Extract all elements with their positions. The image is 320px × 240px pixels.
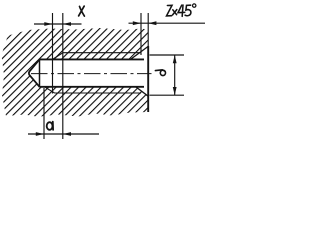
axis (center line) <box>31 73 152 75</box>
dimension a: extension line left <box>43 88 45 139</box>
dimension x: extension line left <box>52 13 54 94</box>
sectioned part (hatched material) with blind threaded hole <box>2 28 149 117</box>
dimension z: dimension line, outside arrows <box>129 22 206 24</box>
4 <box>178 5 185 13</box>
dimension x/a: shared extension line right <box>62 13 64 139</box>
thread runout slant top <box>53 53 64 60</box>
dimension a: dimension line, outside arrows <box>28 133 99 135</box>
label d (rotated, reads from the right) <box>155 70 165 76</box>
bore bottom (thick) <box>40 86 145 88</box>
bore top (thick) <box>40 58 145 60</box>
dimension d: extension line bottom <box>150 94 185 96</box>
dimension x: dimension line, outside arrows <box>34 23 82 25</box>
× <box>173 10 177 15</box>
mouth chamfer bottom <box>136 87 148 96</box>
dimension d: dimension line, internal arrows <box>174 55 176 95</box>
dimension z: extension line at chamfer inner edge <box>140 13 142 55</box>
label a <box>47 122 53 130</box>
thread major top (thin) <box>63 52 141 54</box>
dimension z: extension of face line <box>147 13 149 47</box>
dimension d: extension line top <box>150 54 185 56</box>
Z <box>167 5 173 16</box>
label x <box>79 6 85 16</box>
drill cone tip <box>29 59 40 86</box>
mouth chamfer top <box>131 46 148 59</box>
label Z×45° <box>167 4 196 16</box>
cone base edge <box>39 59 41 88</box>
5 <box>185 5 191 16</box>
thread runout slant bottom <box>45 87 55 93</box>
thread major bottom (thin) <box>55 92 142 94</box>
° <box>193 4 196 7</box>
right face of part <box>147 46 149 112</box>
